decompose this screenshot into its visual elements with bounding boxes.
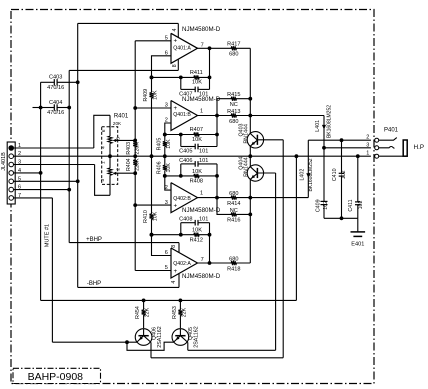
- svg-text:C410: C410: [332, 168, 338, 181]
- svg-text:JL401B: JL401B: [1, 152, 7, 171]
- svg-text:7: 7: [201, 43, 204, 49]
- svg-text:-BHP: -BHP: [87, 281, 101, 287]
- svg-text:1: 1: [101, 161, 107, 164]
- svg-text:P401: P401: [384, 128, 399, 134]
- svg-text:2SA1162: 2SA1162: [194, 326, 200, 347]
- svg-text:10K: 10K: [192, 228, 202, 234]
- svg-text:680: 680: [229, 119, 238, 125]
- svg-text:L401: L401: [315, 120, 321, 132]
- svg-text:R454: R454: [135, 306, 141, 319]
- svg-text:R414: R414: [227, 201, 240, 207]
- svg-text:Q401:A: Q401:A: [173, 46, 191, 52]
- svg-text:10K: 10K: [166, 139, 172, 149]
- svg-text:R411: R411: [190, 70, 203, 76]
- svg-text:1: 1: [200, 191, 203, 197]
- svg-text:R407: R407: [190, 127, 203, 133]
- svg-text:NJM4580M-D: NJM4580M-D: [182, 26, 221, 33]
- svg-text:22K: 22K: [145, 307, 151, 317]
- svg-text:R413: R413: [227, 109, 240, 115]
- svg-text:R406: R406: [156, 161, 162, 174]
- svg-text:2: 2: [115, 168, 121, 171]
- svg-text:NJM4580M-D: NJM4580M-D: [182, 207, 221, 214]
- svg-text:NC: NC: [230, 102, 238, 108]
- svg-text:101: 101: [199, 158, 208, 164]
- svg-text:2: 2: [366, 135, 369, 141]
- svg-text:+BHP: +BHP: [86, 237, 102, 243]
- svg-text:L402: L402: [300, 169, 306, 181]
- svg-text:C408: C408: [179, 217, 192, 223]
- svg-text:R409: R409: [143, 89, 149, 102]
- svg-text:+: +: [173, 105, 177, 112]
- svg-text:8: 8: [171, 245, 177, 248]
- svg-text:680: 680: [229, 52, 238, 58]
- svg-text:102: 102: [341, 170, 347, 179]
- svg-text:R416: R416: [227, 218, 240, 224]
- svg-text:4: 4: [101, 146, 107, 149]
- svg-text:101: 101: [199, 92, 208, 98]
- svg-text:20K: 20K: [113, 121, 122, 126]
- svg-text:C404: C404: [49, 100, 62, 106]
- svg-text:102: 102: [323, 201, 329, 210]
- svg-text:5: 5: [115, 137, 121, 140]
- svg-text:C411: C411: [348, 199, 354, 211]
- svg-text:10K: 10K: [192, 137, 202, 143]
- svg-text:22K: 22K: [182, 307, 188, 317]
- svg-text:R404: R404: [126, 158, 132, 171]
- svg-text:Q401:B: Q401:B: [173, 112, 191, 118]
- svg-text:R410: R410: [143, 210, 149, 223]
- svg-text:470/16: 470/16: [47, 85, 64, 91]
- svg-text:RN1444: RN1444: [244, 124, 250, 143]
- svg-text:MUTE #1: MUTE #1: [44, 224, 50, 247]
- svg-text:Q402:A: Q402:A: [173, 261, 191, 267]
- svg-text:C406: C406: [179, 158, 192, 164]
- svg-text:C405: C405: [179, 149, 192, 155]
- svg-text:101: 101: [199, 217, 208, 223]
- svg-text:R403: R403: [126, 142, 132, 155]
- svg-text:3: 3: [366, 142, 369, 148]
- svg-text:NJM4580M-D: NJM4580M-D: [182, 273, 221, 280]
- svg-text:C407: C407: [179, 92, 192, 98]
- svg-text:R401: R401: [114, 113, 129, 119]
- svg-text:680: 680: [229, 191, 238, 197]
- svg-text:4: 4: [172, 28, 178, 31]
- svg-text:Q402:B: Q402:B: [173, 196, 191, 202]
- svg-text:R412: R412: [190, 237, 203, 243]
- svg-text:7: 7: [201, 257, 204, 263]
- svg-text:220K: 220K: [134, 158, 140, 171]
- svg-text:680: 680: [229, 256, 238, 262]
- svg-text:R418: R418: [227, 266, 240, 272]
- svg-text:RN1444: RN1444: [244, 157, 250, 176]
- svg-text:220K: 220K: [134, 142, 140, 155]
- svg-text:BAHP-0908: BAHP-0908: [28, 371, 84, 383]
- svg-text:R453: R453: [172, 306, 178, 319]
- svg-text:R417: R417: [227, 42, 240, 48]
- svg-text:3: 3: [165, 102, 168, 108]
- svg-text:10K: 10K: [166, 163, 172, 173]
- svg-text:E401: E401: [351, 242, 364, 248]
- svg-text:8: 8: [172, 64, 178, 67]
- svg-text:3: 3: [100, 178, 106, 181]
- svg-text:10K: 10K: [153, 211, 159, 221]
- svg-text:BK1608LM252: BK1608LM252: [327, 105, 333, 138]
- svg-text:470/16: 470/16: [47, 110, 64, 116]
- svg-text:2SA1162: 2SA1162: [157, 326, 163, 347]
- svg-text:102: 102: [358, 201, 364, 210]
- svg-text:+: +: [173, 268, 177, 275]
- svg-text:4: 4: [171, 281, 177, 284]
- svg-text:R415: R415: [227, 92, 240, 98]
- svg-text:+: +: [173, 37, 177, 44]
- svg-text:101: 101: [199, 149, 208, 155]
- svg-text:1: 1: [200, 108, 203, 114]
- svg-text:10K: 10K: [153, 90, 159, 100]
- svg-text:C409: C409: [315, 199, 321, 212]
- svg-text:NC: NC: [230, 208, 238, 214]
- svg-text:R408: R408: [190, 179, 203, 185]
- svg-text:+: +: [173, 202, 177, 209]
- svg-text:C403: C403: [49, 75, 62, 81]
- svg-text:10K: 10K: [192, 80, 202, 86]
- svg-text:R405: R405: [156, 138, 162, 151]
- svg-text:10K: 10K: [192, 169, 202, 175]
- svg-text:BK1608LM252: BK1608LM252: [308, 158, 314, 191]
- svg-text:6: 6: [101, 129, 107, 132]
- svg-text:H.P: H.P: [414, 144, 424, 151]
- svg-text:6: 6: [165, 250, 168, 256]
- svg-text:1: 1: [366, 151, 369, 157]
